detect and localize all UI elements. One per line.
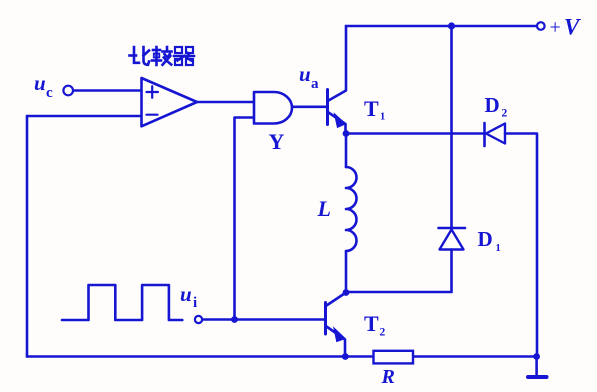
svg-text:Y: Y [269,129,285,154]
svg-text:T: T [364,96,379,121]
svg-text:1: 1 [496,243,501,254]
svg-text:D: D [478,227,493,251]
svg-text:u: u [180,282,192,306]
svg-text:+: + [550,17,561,39]
svg-text:2: 2 [502,108,508,120]
svg-text:a: a [311,76,319,92]
svg-text:1: 1 [380,112,385,123]
svg-text:T: T [364,311,379,336]
svg-text:D: D [485,93,500,117]
svg-text:u: u [34,71,46,95]
svg-text:c: c [46,85,53,101]
svg-text:u: u [299,62,311,86]
svg-text:i: i [193,295,197,311]
svg-text:2: 2 [380,327,386,339]
svg-text:R: R [381,366,395,388]
svg-text:L: L [317,196,331,221]
svg-text:V: V [564,15,581,40]
